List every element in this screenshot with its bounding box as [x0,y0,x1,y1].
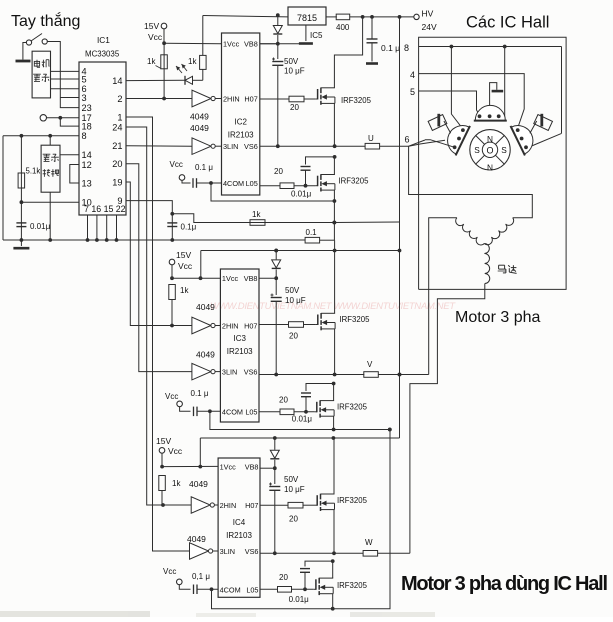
svg-text:V: V [367,360,373,369]
svg-text:2HIN: 2HIN [223,95,240,104]
svg-text:14: 14 [82,150,92,160]
svg-text:IRF3205: IRF3205 [340,315,371,324]
svg-text:IR2103: IR2103 [227,347,253,356]
svg-text:20: 20 [290,103,299,112]
svg-text:IC4: IC4 [233,518,246,527]
svg-text:IRF3205: IRF3205 [337,403,368,412]
svg-text:50V: 50V [284,475,299,484]
svg-text:5.1k: 5.1k [26,167,41,176]
svg-text:50V: 50V [285,286,300,295]
svg-text:1Vcc: 1Vcc [220,462,237,471]
svg-text:N: N [487,134,493,144]
svg-text:O: O [486,146,493,156]
svg-text:2HIN: 2HIN [220,501,237,510]
svg-text:H07: H07 [245,501,258,510]
svg-text:Vcc: Vcc [148,32,163,42]
svg-text:4: 4 [410,70,415,80]
svg-text:Vcc: Vcc [178,261,193,271]
svg-text:4049: 4049 [196,302,215,312]
svg-text:Các IC Hall: Các IC Hall [466,14,549,32]
svg-text:IC2: IC2 [234,117,247,126]
svg-text:0.1 μ: 0.1 μ [195,163,213,172]
svg-text:0.01μ: 0.01μ [291,190,312,199]
svg-text:1k: 1k [172,479,181,488]
svg-text:24V: 24V [422,22,437,32]
svg-text:4COM: 4COM [220,585,241,594]
svg-text:N: N [487,163,493,173]
svg-text:23: 23 [82,103,92,113]
svg-text:13: 13 [82,178,92,188]
svg-text:Motor 3 pha: Motor 3 pha [455,309,540,326]
svg-text:L05: L05 [246,585,258,594]
svg-text:0.1 μ: 0.1 μ [191,389,209,398]
svg-text:IRF3205: IRF3205 [337,496,368,505]
svg-text:L05: L05 [245,407,257,416]
svg-text:0.1μ: 0.1μ [181,223,197,232]
svg-text:Vcc: Vcc [168,446,183,456]
svg-text:Vcc: Vcc [170,160,183,169]
svg-text:H07: H07 [244,95,257,104]
svg-text:S: S [474,145,480,155]
svg-text:4COM: 4COM [223,179,244,188]
svg-text:VB8: VB8 [244,40,258,49]
svg-text:IRF3205: IRF3205 [341,96,372,105]
svg-text:1Vcc: 1Vcc [222,274,239,283]
svg-text:20: 20 [279,396,288,405]
svg-text:1k: 1k [180,286,189,295]
svg-text:0.1 μ: 0.1 μ [381,43,400,53]
svg-text:1k: 1k [188,57,197,66]
svg-text:3LIN: 3LIN [222,368,237,377]
svg-text:IR2103: IR2103 [226,531,252,540]
svg-text:20: 20 [274,167,283,176]
svg-text:IC3: IC3 [233,334,246,343]
svg-text:IRF3205: IRF3205 [337,581,368,590]
svg-text:H07: H07 [244,322,257,331]
svg-text:3: 3 [82,93,87,103]
svg-text:4049: 4049 [189,479,208,489]
svg-text:VS6: VS6 [245,547,259,556]
svg-text:400: 400 [336,23,350,32]
svg-text:12: 12 [82,160,92,170]
svg-text:0.01μ: 0.01μ [289,595,310,604]
svg-text:Vcc: Vcc [165,392,178,401]
svg-text:15V: 15V [144,21,159,31]
svg-text:4049: 4049 [190,123,209,133]
svg-text:5: 5 [82,74,87,84]
svg-text:50V: 50V [284,57,299,66]
svg-text:W: W [365,538,373,547]
svg-text:18: 18 [82,121,92,131]
svg-text:Vcc: Vcc [163,567,176,576]
svg-text:0.1: 0.1 [306,228,318,237]
svg-text:3LIN: 3LIN [223,142,238,151]
svg-text:21: 21 [112,141,122,151]
svg-text:IRF3205: IRF3205 [339,177,370,186]
svg-text:0,1 μ: 0,1 μ [192,572,210,581]
svg-text:20: 20 [289,332,298,341]
svg-text:IC5: IC5 [310,31,323,40]
svg-text:VS6: VS6 [244,368,258,377]
svg-text:1k: 1k [147,57,156,66]
svg-text:4COM: 4COM [222,407,243,416]
svg-text:0.01μ: 0.01μ [30,222,51,231]
svg-text:1k: 1k [252,210,261,219]
svg-text:Tay thắng: Tay thắng [11,11,80,30]
svg-text:1: 1 [117,112,122,122]
svg-text:VB8: VB8 [244,274,258,283]
svg-text:3LIN: 3LIN [220,547,235,556]
svg-text:20: 20 [279,573,288,582]
svg-text:5: 5 [410,87,415,97]
svg-text:10 μF: 10 μF [285,296,306,305]
svg-text:0.01μ: 0.01μ [292,415,313,424]
svg-text:2: 2 [117,94,122,104]
svg-text:7 16 15 22: 7 16 15 22 [84,204,126,214]
svg-text:2HIN: 2HIN [222,322,239,331]
svg-text:IC1: IC1 [97,35,110,45]
svg-text:10 μF: 10 μF [284,485,305,494]
svg-text:19: 19 [112,177,122,187]
svg-text:15V: 15V [176,250,191,260]
svg-text:6: 6 [404,135,409,145]
svg-text:U: U [368,134,374,143]
svg-text:WWW.DIENTUVIETNAM.NET WWW.DIE: WWW.DIENTUVIETNAM.NET WWW.DIENTUVIETNAM.… [210,301,456,312]
svg-text:VS6: VS6 [244,142,258,151]
svg-text:10 μF: 10 μF [284,67,305,76]
svg-text:MC33035: MC33035 [85,50,120,59]
svg-text:4049: 4049 [190,112,209,122]
svg-text:14: 14 [112,76,122,86]
svg-text:1Vcc: 1Vcc [223,40,240,49]
svg-text:S: S [501,145,507,155]
svg-text:4049: 4049 [196,350,215,360]
svg-text:20: 20 [112,159,122,169]
svg-text:8: 8 [82,131,87,141]
svg-text:HV: HV [422,9,434,19]
svg-text:20: 20 [289,515,298,524]
svg-text:7815: 7815 [297,13,317,23]
svg-text:8: 8 [404,43,409,53]
svg-text:24: 24 [112,122,122,132]
svg-text:IR2103: IR2103 [228,130,254,139]
svg-text:L05: L05 [246,179,258,188]
svg-text:15V: 15V [156,436,171,446]
svg-text:Motor 3 pha dùng IC Hall: Motor 3 pha dùng IC Hall [401,573,608,595]
svg-text:VB8: VB8 [245,462,259,471]
